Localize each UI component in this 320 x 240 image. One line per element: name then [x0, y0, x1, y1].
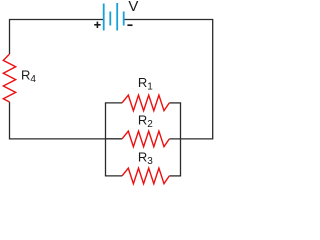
battery + polarity mark	[94, 22, 100, 28]
wire right segment (R2 right side to right bar and far-right wire up to battery - terminal)	[124, 20, 213, 139]
wire R3 branch right stub	[169, 175, 181, 177]
wire R1 branch right stub	[169, 102, 181, 104]
wire R3 branch left stub	[105, 175, 122, 177]
wire R1 branch left stub	[105, 102, 122, 104]
wire R2 branch left stub (crossing junction at left bar)	[105, 138, 122, 140]
resistor R4 (vertical zigzag on left wire)	[3, 54, 15, 102]
wire top-left segment (battery + terminal to top-left corner, down to R4)	[10, 20, 104, 55]
resistor R3 (bottom parallel branch)	[122, 168, 169, 184]
battery V (two-cell plates)	[104, 3, 124, 31]
resistor R2 (middle parallel branch)	[122, 131, 169, 147]
resistor R1 (top parallel branch)	[122, 95, 169, 111]
svg-text:V: V	[128, 0, 138, 15]
wire left-bottom segment (R4 bottom, bottom-left corner, along bottom to R2)	[10, 102, 123, 139]
battery - polarity mark	[127, 24, 132, 26]
node: parallel box right bar	[180, 103, 182, 176]
node: parallel box left bar	[105, 103, 107, 176]
